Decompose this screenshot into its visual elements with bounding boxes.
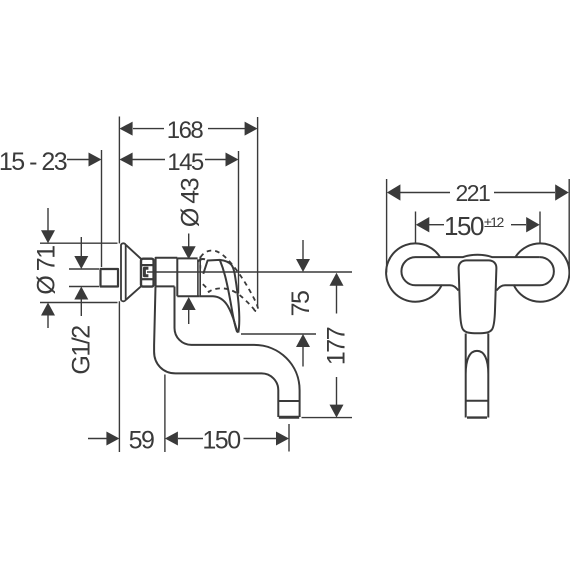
extension line, supply pipe end (dim 15-23) <box>101 150 103 267</box>
side view dimension labels <box>0 117 350 454</box>
center axis end hook <box>144 268 148 276</box>
aerator joint line <box>278 400 299 402</box>
dimension line 15-23 / 145 <box>67 159 89 161</box>
arrowheads dim 150±12 <box>416 217 430 232</box>
connecting body bar <box>401 257 553 290</box>
dimension line 150±12 <box>429 224 444 226</box>
svg-text:±12: ±12 <box>484 214 504 230</box>
svg-text:Ø 71: Ø 71 <box>33 246 61 295</box>
swivel spout S-curve <box>154 287 300 418</box>
extension line, spout riser axis (dim 59/150) <box>164 375 166 453</box>
handle joint lines <box>197 259 199 296</box>
extension line, lever tip (dim 75) <box>241 333 316 335</box>
svg-text:150: 150 <box>202 426 240 454</box>
valve body front section <box>156 258 178 287</box>
svg-text:G1/2: G1/2 <box>68 326 96 375</box>
arrowheads dim Ø43 <box>182 246 196 259</box>
svg-text:177: 177 <box>322 327 350 365</box>
svg-text:168: 168 <box>167 117 204 144</box>
arrowheads dim 15-23 <box>89 153 102 167</box>
arrowheads dims 59 and 150 <box>106 432 119 446</box>
FRONT VIEW <box>387 179 570 273</box>
arrowheads dim 168 <box>119 122 132 136</box>
dimension line 221 <box>400 192 450 194</box>
handle lever (front view) <box>459 260 497 333</box>
arrow stems for dim G1/2 <box>80 237 82 258</box>
svg-text:15 - 23: 15 - 23 <box>0 148 67 176</box>
svg-text:59: 59 <box>129 426 154 454</box>
valve body cartridge section (Ø43) <box>177 258 199 297</box>
extension lines for dim 221 <box>386 179 388 273</box>
arrowheads dim 221 <box>387 184 401 200</box>
arrow stems for dim 75 <box>302 240 304 260</box>
extension line, right end of dim 168 <box>257 117 259 307</box>
handle lever, open position (dashed) <box>200 250 258 311</box>
svg-text:150: 150 <box>444 211 484 241</box>
arrow stems for dim Ø71 <box>47 208 49 232</box>
arrowheads dim 177 <box>330 273 344 286</box>
svg-text:221: 221 <box>455 180 490 206</box>
arrowheads of side-view dimensions <box>41 122 344 446</box>
dimension line 177 (stem segments) <box>336 285 338 314</box>
left escutcheon circle (front view) <box>386 243 442 301</box>
aerator outlet face <box>279 416 299 419</box>
extension lines for dim Ø71 <box>40 242 118 244</box>
dimension line 59 / 150 <box>88 438 107 440</box>
extension lines for dim G1/2 <box>69 268 99 270</box>
arrowheads dim 75 <box>296 259 310 272</box>
faucet side view <box>101 243 353 417</box>
spout outlet tube (front view) <box>466 334 489 418</box>
wall line (upper segment) <box>118 117 120 244</box>
faucet center axis line <box>147 271 352 273</box>
right escutcheon circle (front view) <box>514 243 570 301</box>
arrowheads dim G1/2 <box>74 256 88 269</box>
wall line (lower segment) <box>118 301 120 452</box>
extension line, outlet axis (dim 150) <box>288 424 290 452</box>
front view dimension labels <box>444 180 504 241</box>
svg-text:145: 145 <box>167 149 204 176</box>
knurled mounting nut <box>141 259 154 287</box>
G1/2 supply connection pipe <box>101 269 119 287</box>
dimension line 168 <box>133 128 164 130</box>
arrowhead dim 145 right <box>226 153 239 167</box>
arrow stems for dim Ø43 <box>188 234 190 248</box>
extension line, spout outlet bottom (dim 177) <box>302 417 353 419</box>
handle lever, closed position <box>198 259 205 262</box>
arrowheads dim Ø71 <box>41 230 55 243</box>
extension line, right end of dim 145 <box>238 151 240 294</box>
svg-text:75: 75 <box>287 291 315 316</box>
wall escutcheon cone <box>121 243 126 301</box>
extension lines for dim 150±12 <box>415 212 417 244</box>
svg-text:Ø 43: Ø 43 <box>177 178 205 227</box>
